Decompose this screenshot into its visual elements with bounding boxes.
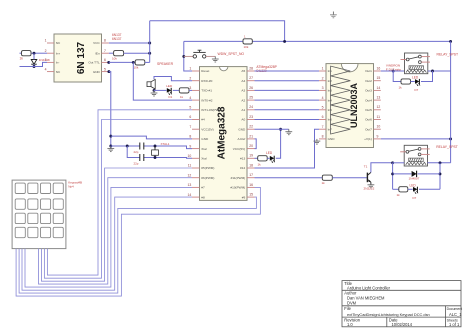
pin 17 U2 <box>247 177 255 179</box>
svg-text:2: 2 <box>45 49 47 53</box>
wire 5V rail 2 <box>184 40 451 42</box>
key 13 <box>41 183 51 193</box>
resistor R2 10k (pin7 pullup) <box>109 52 113 54</box>
svg-text:#11(PWM): #11(PWM) <box>231 176 246 180</box>
ground (speaker) <box>153 90 155 93</box>
wire gnd to ATMega pin8 <box>111 136 192 139</box>
svg-text:A2: A2 <box>241 98 245 102</box>
svg-text:16: 16 <box>377 66 381 70</box>
svg-text:LED: LED <box>166 84 173 88</box>
pin 5 U1 <box>102 71 109 73</box>
svg-text:10: 10 <box>188 154 192 158</box>
svg-text:3: 3 <box>189 86 191 90</box>
svg-text:A5: A5 <box>241 69 245 73</box>
node flyback left <box>391 172 394 175</box>
svg-text:Out TTL: Out TTL <box>88 61 100 65</box>
pin 14 U2 <box>192 196 200 198</box>
svg-text:ULN2003A: ULN2003A <box>349 82 359 128</box>
pin 6 U3 <box>319 119 326 121</box>
node out1-coil <box>392 70 395 73</box>
svg-text:Xtal: Xtal <box>201 157 207 161</box>
svg-text:1: 1 <box>322 67 324 71</box>
resistor R6 1k base <box>322 175 332 180</box>
svg-text:3: 3 <box>322 86 324 90</box>
resistor R7 1k (pin13 LED) <box>255 157 258 159</box>
transistor Q1 2N2222 <box>366 173 368 183</box>
svg-text:19: 19 <box>249 154 253 158</box>
svg-text:21: 21 <box>249 134 253 138</box>
transistor array element 1 U3 <box>331 66 351 76</box>
wire VCC right vertical <box>450 41 452 162</box>
wire pin6 output <box>109 61 133 63</box>
svg-text:Out4: Out4 <box>365 98 372 102</box>
svg-text:#13: #13 <box>240 157 245 161</box>
pin 11 U2 <box>192 167 200 169</box>
svg-text:RXD-#0: RXD-#0 <box>201 79 212 83</box>
transistor array element 2 U3 <box>331 76 351 86</box>
pin 24 U2 <box>247 109 255 111</box>
pin 3 U1 <box>47 61 54 63</box>
svg-text:8: 8 <box>189 135 191 139</box>
ground (isolated top) <box>332 12 334 15</box>
pin 10 U2 <box>192 157 200 159</box>
wire A5 net <box>255 70 320 72</box>
pin 12 U2 <box>192 177 200 179</box>
wire A4 net <box>255 80 320 82</box>
wire flyback diode line <box>393 173 412 175</box>
pin 5 U2 <box>192 109 200 111</box>
svg-text:11: 11 <box>377 115 381 119</box>
svg-text:20: 20 <box>249 144 253 148</box>
pin 2 U1 <box>47 52 54 54</box>
svg-text:6N137: 6N137 <box>112 37 122 41</box>
svg-text:RELAY_SPST: RELAY_SPST <box>436 145 458 149</box>
node pin6 output <box>107 61 110 64</box>
svg-text:10k: 10k <box>244 45 249 49</box>
svg-text:1 of 1: 1 of 1 <box>449 322 460 327</box>
svg-text:13: 13 <box>188 183 192 187</box>
wire A1 net <box>255 109 320 111</box>
svg-text:In+: In+ <box>56 51 61 55</box>
svg-text:In4: In4 <box>328 98 333 102</box>
svg-text:+V(1): +V(1) <box>364 137 372 141</box>
svg-text:Out3: Out3 <box>365 89 372 93</box>
relay K1 RELAY_SPST <box>405 53 428 74</box>
wire input In- <box>20 66 35 68</box>
wire VCC riser <box>149 21 151 63</box>
node DCC out <box>132 61 135 64</box>
node flyback right <box>439 172 442 175</box>
svg-text:4: 4 <box>189 96 191 100</box>
capacitor C2 22p <box>139 154 141 161</box>
svg-text:NC: NC <box>56 41 61 45</box>
wire reset net <box>184 41 192 71</box>
svg-text:WDW_SPST_NO: WDW_SPST_NO <box>218 52 245 56</box>
svg-text:TXD-#1: TXD-#1 <box>201 89 212 93</box>
svg-text:18: 18 <box>249 163 253 167</box>
svg-text:Out2: Out2 <box>365 79 372 83</box>
ground (logic gnd) <box>110 146 112 149</box>
pin 14 U3 <box>374 89 381 91</box>
pin 2 U3 <box>319 80 326 82</box>
LED D6 <box>408 188 413 190</box>
transistor array element 7 U3 <box>331 124 351 134</box>
pin 15 U3 <box>374 80 381 82</box>
svg-text:extTinyCadDesignLichtsturing K: extTinyCadDesignLichtsturing Keypad DCC.… <box>347 312 430 317</box>
node VCC-pin8 <box>148 42 151 45</box>
svg-text:In5: In5 <box>328 108 333 112</box>
pin 2 U2 <box>192 80 200 82</box>
pin 4 U2 <box>192 99 200 101</box>
pin 16 U2 <box>247 186 255 188</box>
svg-text:D7: D7 <box>415 88 419 92</box>
svg-text:Out7: Out7 <box>365 127 372 131</box>
wire base <box>332 177 367 179</box>
svg-text:17: 17 <box>249 173 253 177</box>
pin 4 U1 <box>47 71 54 73</box>
svg-text:5: 5 <box>322 106 324 110</box>
svg-text:2: 2 <box>322 76 324 80</box>
LED D4 <box>411 81 415 83</box>
wire relay1 LED branch left <box>393 71 401 82</box>
svg-text:10/02/2014: 10/02/2014 <box>392 322 413 327</box>
svg-text:1k: 1k <box>258 162 262 166</box>
key 11 <box>15 183 25 193</box>
wire 5V top rail <box>150 21 285 42</box>
pin 5 U3 <box>319 109 326 111</box>
pin 7 U3 <box>319 128 326 130</box>
svg-text:GND: GND <box>93 70 101 74</box>
pin 8 U1 <box>102 42 109 44</box>
svg-text:13: 13 <box>377 96 381 100</box>
svg-text:12: 12 <box>377 105 381 109</box>
wire relay1 LED branch right <box>421 71 433 82</box>
svg-text:Reset: Reset <box>201 69 209 73</box>
wire LED to gnd net <box>276 129 281 158</box>
svg-text:In3: In3 <box>328 89 333 93</box>
key 32 <box>28 213 38 223</box>
key 22 <box>28 199 38 209</box>
key 44 <box>53 227 63 237</box>
svg-text:VCC(5V): VCC(5V) <box>201 127 213 131</box>
svg-text:Xtal: Xtal <box>201 147 207 151</box>
svg-text:File: File <box>344 306 351 311</box>
svg-text:RELAY_SPST: RELAY_SPST <box>437 53 459 57</box>
wire A3 net <box>255 89 320 91</box>
resistor R4 10k reset pullup <box>243 39 252 44</box>
svg-text:28: 28 <box>249 66 253 70</box>
pin 7 U2 <box>192 128 200 130</box>
svg-text:16: 16 <box>249 183 253 187</box>
svg-text:GND: GND <box>328 137 336 141</box>
resistor R5 1k <box>173 89 179 91</box>
node rail right corner <box>449 40 452 43</box>
wire pin18 to In7 <box>255 129 320 168</box>
svg-text:4: 4 <box>322 96 324 100</box>
svg-text:SPEAKER: SPEAKER <box>157 62 174 66</box>
wire 6N137 gnd down <box>109 72 111 149</box>
svg-text:9: 9 <box>189 144 191 148</box>
key 24 <box>53 199 63 209</box>
pin 12 U3 <box>374 109 381 111</box>
svg-text:In2: In2 <box>328 79 333 83</box>
node pin5 gnd <box>107 70 110 73</box>
title block <box>342 281 461 327</box>
wire +V to VCC rail <box>381 138 451 140</box>
key 21 <box>15 199 25 209</box>
switch SW1 WDW_SPST_NO <box>184 55 193 57</box>
svg-text:4: 4 <box>45 67 47 71</box>
svg-text:10: 10 <box>377 125 381 129</box>
transistor array element 6 U3 <box>331 115 351 125</box>
svg-text:GND: GND <box>201 137 209 141</box>
svg-text:22p: 22p <box>134 162 139 166</box>
node In- junction <box>33 65 36 68</box>
svg-text:12: 12 <box>188 173 192 177</box>
pin 18 U2 <box>247 167 255 169</box>
wire net keypad col4 (pin16) <box>16 187 260 296</box>
svg-text:D1: D1 <box>169 95 173 99</box>
pin 8 U3 <box>319 138 326 140</box>
op-amp U3 ULN2003A <box>326 64 374 148</box>
svg-text:Document: Document <box>447 307 463 311</box>
wire net keypad row3 (pin11) <box>42 168 193 281</box>
pin 28 U2 <box>247 70 255 72</box>
pin 7 U1 <box>102 52 109 54</box>
svg-text:27: 27 <box>249 76 253 80</box>
wire input In+ <box>20 52 22 54</box>
wire emitter to gnd <box>370 182 372 184</box>
svg-text:24: 24 <box>249 105 253 109</box>
node gnd-xtal <box>109 145 112 148</box>
wire flyback branch verticals <box>392 163 394 190</box>
wire net keypad col2 (pin14) <box>22 197 192 290</box>
svg-text:INT0-#2: INT0-#2 <box>201 98 212 102</box>
wire net keypad col3 (pin15) <box>19 197 256 293</box>
svg-text:1.0: 1.0 <box>347 322 353 327</box>
svg-text:14: 14 <box>188 193 192 197</box>
pin 1 U2 <box>192 70 200 72</box>
svg-text:1N4007: 1N4007 <box>409 177 420 181</box>
node pin7 net <box>148 52 151 55</box>
resistor R1 1k <box>22 51 32 56</box>
wire relay2 coil to VCC <box>428 162 451 164</box>
connector KP1 keypad 4x4 <box>12 180 66 249</box>
wire speaker to RXD pin2 <box>154 77 192 81</box>
svg-text:Out5: Out5 <box>365 108 372 112</box>
pin 25 U2 <box>247 99 255 101</box>
wire DCC to INT0 pin4 <box>133 62 192 100</box>
node xtal2-crystal <box>154 156 157 159</box>
node xtal1 branch <box>126 145 129 148</box>
svg-text:A3: A3 <box>241 89 245 93</box>
wire relay1 coil to VCC <box>428 70 451 72</box>
svg-text:VCC(5V): VCC(5V) <box>233 147 245 151</box>
svg-text:8: 8 <box>104 39 106 43</box>
svg-text:LED: LED <box>410 183 417 187</box>
node xtal1-crystal <box>154 145 157 148</box>
wire pin22 gnd <box>255 128 289 130</box>
svg-text:25: 25 <box>249 96 253 100</box>
pin 9 U2 <box>192 148 200 150</box>
wire collector to relay2 coil <box>393 162 405 164</box>
wire relay2 LED right <box>419 188 440 190</box>
svg-text:DVM: DVM <box>347 301 357 306</box>
transistor array element 5 U3 <box>331 105 351 115</box>
pin 26 U2 <box>247 89 255 91</box>
svg-text:Out1: Out1 <box>365 69 372 73</box>
pin 22 U2 <box>247 128 255 130</box>
pin 15 U2 <box>247 196 255 198</box>
svg-text:11: 11 <box>188 164 192 168</box>
svg-text:In6: In6 <box>328 118 333 122</box>
svg-text:A.Ref: A.Ref <box>237 137 245 141</box>
node +V rail <box>449 137 452 140</box>
svg-text:/En: /En <box>95 51 100 55</box>
svg-text:2N2222: 2N2222 <box>364 187 375 191</box>
transistor array element 4 U3 <box>331 95 351 105</box>
pin 3 U2 <box>192 89 200 91</box>
node relay2 coil-vcc <box>439 161 442 164</box>
svg-text:14: 14 <box>377 86 381 90</box>
svg-text:22p: 22p <box>134 150 139 154</box>
svg-text:23: 23 <box>249 115 253 119</box>
svg-text:6: 6 <box>104 58 106 62</box>
LED D2 <box>167 88 171 93</box>
node coil-vcc branch <box>431 70 434 73</box>
node reset-button <box>182 55 185 58</box>
LED D3 <box>267 157 269 159</box>
ground (ATMega gnd) <box>288 129 290 132</box>
svg-text:#7: #7 <box>201 186 205 190</box>
wire xtal line2 <box>127 146 140 158</box>
op-amp U2 ATMega328 <box>200 67 248 201</box>
wire speaker bottom <box>153 89 155 90</box>
capacitor C1 22p <box>139 143 141 150</box>
svg-text:XTAL1: XTAL1 <box>161 142 170 146</box>
wire button to gnd <box>206 55 215 57</box>
node gnd-pin8 <box>109 135 112 138</box>
pin 6 U1 <box>102 61 109 63</box>
svg-text:3: 3 <box>45 58 47 62</box>
svg-text:6N 137: 6N 137 <box>76 41 87 74</box>
wire collector <box>371 163 393 173</box>
svg-text:F DLT strip: F DLT strip <box>386 67 401 71</box>
speaker LS1 <box>147 82 151 87</box>
svg-text:#12: #12 <box>240 166 245 170</box>
wire to TXD pin3 <box>189 89 192 91</box>
svg-text:ALC_1: ALC_1 <box>449 312 462 317</box>
svg-text:2: 2 <box>189 76 191 80</box>
svg-text:9: 9 <box>377 134 379 138</box>
wire net keypad row1 (pin5) <box>47 110 192 275</box>
pin 19 U2 <box>247 157 255 159</box>
svg-text:5: 5 <box>104 67 106 71</box>
svg-text:#6(PWM): #6(PWM) <box>201 176 214 180</box>
svg-text:1: 1 <box>189 67 191 71</box>
key 42 <box>28 227 38 237</box>
key 43 <box>41 227 51 237</box>
resistor R8 1k <box>401 79 411 84</box>
ground (ULN gnd) <box>316 139 318 141</box>
key 41 <box>15 227 25 237</box>
wire pin17 to base resistor <box>255 177 323 179</box>
svg-text:1: 1 <box>45 39 47 43</box>
ground (reset button) <box>214 56 216 59</box>
crystal X1 <box>154 146 156 150</box>
svg-text:GND: GND <box>238 127 246 131</box>
wire net keypad row4 (pin12) <box>39 178 193 284</box>
wire aref-vcc bridge <box>255 139 257 149</box>
wire relay2 LED line <box>393 188 399 190</box>
svg-text:A1: A1 <box>241 108 245 112</box>
node In+ junction <box>33 52 36 55</box>
wire A0 net <box>255 119 320 121</box>
svg-text:Out6: Out6 <box>365 118 372 122</box>
pin 6 U2 <box>192 119 200 121</box>
svg-text:6: 6 <box>322 115 324 119</box>
transistor array element 3 U3 <box>331 86 351 96</box>
svg-text:A0: A0 <box>241 118 245 122</box>
wire net keypad row2 (pin6) <box>44 120 192 279</box>
svg-text:1k: 1k <box>20 57 24 61</box>
diode D1 1N4148 <box>31 60 37 65</box>
key 12 <box>28 183 38 193</box>
pin 21 U2 <box>247 138 255 140</box>
svg-text:#8: #8 <box>201 195 205 199</box>
svg-text:VCC: VCC <box>93 41 100 45</box>
svg-text:10k: 10k <box>134 66 139 70</box>
svg-text:NC: NC <box>56 70 61 74</box>
svg-text:Np4: Np4 <box>68 184 74 188</box>
svg-text:7: 7 <box>322 125 324 129</box>
svg-text:5: 5 <box>189 106 191 110</box>
op-amp U1 6N137 optocoupler <box>54 34 102 82</box>
resistor R3 10k (pin6 pullup) <box>135 60 145 65</box>
svg-text:In1: In1 <box>328 69 333 73</box>
pin 10 U3 <box>374 128 381 130</box>
key 31 <box>15 213 25 223</box>
pin 11 U3 <box>374 119 381 121</box>
node led-gnd <box>279 128 282 131</box>
pin 16 U3 <box>374 70 381 72</box>
pin 13 U3 <box>374 99 381 101</box>
svg-text:15: 15 <box>249 193 253 197</box>
node collector-coil <box>391 161 394 164</box>
svg-text:10k: 10k <box>112 56 117 60</box>
svg-text:1k: 1k <box>399 85 403 89</box>
wire VCC pin8 <box>109 42 150 44</box>
pin 8 U2 <box>192 138 200 140</box>
pin 23 U2 <box>247 119 255 121</box>
svg-text:7: 7 <box>104 49 106 53</box>
ground (emitter) <box>368 185 375 188</box>
key 33 <box>41 213 51 223</box>
pin 1 U3 <box>319 70 326 72</box>
svg-text:6: 6 <box>189 115 191 119</box>
pin 3 U3 <box>319 89 326 91</box>
svg-text:D7: D7 <box>413 196 417 200</box>
svg-text:15: 15 <box>377 76 381 80</box>
svg-text:In-: In- <box>56 61 60 65</box>
svg-text:#10(PWM): #10(PWM) <box>230 186 245 190</box>
node rail junction <box>283 40 286 43</box>
wire net keypad col1 (pin13) <box>25 187 192 287</box>
svg-text:1k: 1k <box>322 181 326 185</box>
wire Out1 to relay coil <box>381 70 405 72</box>
resistor R9 1k <box>399 187 408 192</box>
wire A2 net <box>255 99 320 101</box>
